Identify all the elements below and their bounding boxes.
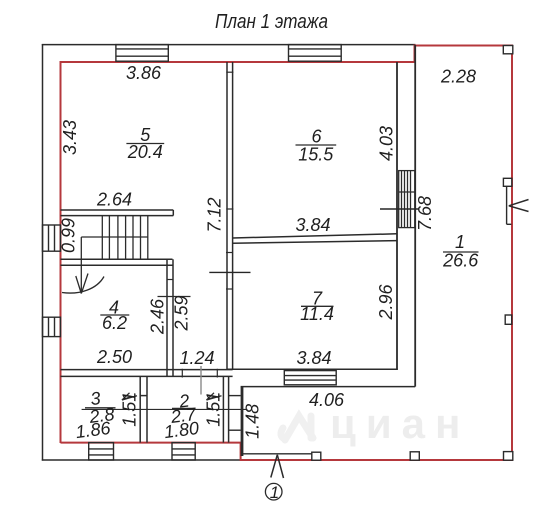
stairs direction line (76, 237, 88, 294)
svg-text:11.4: 11.4 (300, 304, 334, 324)
column square top right (503, 46, 513, 54)
door opening central wall ticks (226, 253, 233, 290)
window bottom room 3 (89, 443, 114, 460)
svg-text:2.28: 2.28 (440, 67, 476, 87)
outer frame left (42, 44, 44, 461)
outer frame top (42, 44, 416, 46)
stairs landing line (81, 236, 148, 238)
svg-text:1.51: 1.51 (204, 392, 224, 427)
svg-text:1.24: 1.24 (179, 348, 214, 368)
svg-text:2.64: 2.64 (96, 190, 132, 210)
chimney shaft right wall (399, 171, 415, 228)
stairs treads (102, 216, 148, 260)
room 7 label (300, 289, 334, 325)
svg-text:7.12: 7.12 (205, 197, 225, 232)
door opening corridor ticks (182, 369, 217, 378)
svg-text:15.5: 15.5 (298, 145, 334, 165)
column square bottom right (504, 452, 513, 461)
svg-text:4.06: 4.06 (309, 390, 345, 410)
svg-text:1.48: 1.48 (242, 404, 262, 439)
wall right thick (397, 45, 415, 387)
outer frame bottom (42, 459, 242, 461)
wall porch left (241, 387, 244, 456)
svg-text:2.8: 2.8 (87, 404, 115, 427)
svg-text:2.50: 2.50 (96, 347, 132, 367)
wall bottom thin rooms 3-2 (61, 370, 233, 377)
entrance arrow bottom (271, 455, 284, 478)
svg-text:2.7: 2.7 (169, 404, 198, 427)
shaft room2-porch (229, 396, 241, 431)
leader line corridor door (200, 366, 202, 395)
entrance arrow right (509, 200, 529, 212)
svg-text:7.68: 7.68 (415, 196, 435, 231)
svg-text:3.84: 3.84 (296, 348, 331, 368)
svg-text:4.03: 4.03 (377, 126, 397, 161)
column square right wall mid (505, 315, 512, 324)
room 1 label (442, 232, 479, 271)
room 3 label (85, 388, 116, 427)
svg-text:1.51: 1.51 (119, 392, 139, 427)
window top B (289, 45, 342, 62)
entrance mark circle 1 (265, 483, 282, 502)
svg-text:3.43: 3.43 (60, 120, 80, 155)
svg-text:2.96: 2.96 (376, 284, 396, 321)
door opening room 4 ticks (158, 280, 191, 297)
window left upper (43, 225, 61, 251)
room 6 label (296, 127, 337, 165)
svg-text:План 1 этажа: План 1 этажа (215, 11, 328, 33)
window left lower (43, 317, 61, 336)
door tick central wall mid (226, 208, 233, 210)
wall bottom thick (227, 369, 415, 386)
column square bottom 1 (312, 452, 321, 460)
svg-text:6.2: 6.2 (102, 313, 127, 333)
watermark logo (281, 416, 313, 440)
door leaf right wall (507, 186, 512, 224)
window bottom thick wall (284, 371, 336, 385)
window top A (116, 45, 168, 62)
wall rooms 6-7 divider (233, 234, 397, 243)
room 2 label (169, 390, 198, 427)
svg-text:циан: циан (330, 400, 470, 447)
dimension line rooms 3-2 (82, 408, 248, 410)
svg-text:2.46: 2.46 (147, 298, 167, 335)
svg-text:1: 1 (455, 232, 465, 252)
door tick central wall top (226, 71, 233, 73)
wall central vertical (227, 62, 233, 370)
room 5 label (126, 125, 164, 162)
svg-text:2.59: 2.59 (171, 295, 191, 331)
svg-text:3.84: 3.84 (295, 215, 330, 235)
room 4 label (100, 297, 129, 333)
door opening right wall cross line (380, 208, 420, 210)
door arrow room 2 (207, 393, 222, 400)
svg-text:1: 1 (270, 483, 279, 502)
wall room 2 right (223, 377, 228, 443)
svg-text:20.4: 20.4 (127, 142, 163, 162)
door arrow room 3 (122, 393, 137, 400)
wall rooms 3-2 divider (140, 376, 147, 442)
svg-text:6: 6 (311, 127, 322, 147)
porch step line (243, 453, 312, 455)
svg-text:3.86: 3.86 (126, 63, 162, 83)
stairs cut arc (62, 277, 104, 294)
red contour (61, 46, 513, 461)
column square bottom 2 (410, 452, 419, 460)
door opening central wall cross line (209, 271, 250, 273)
wall stair top (61, 210, 174, 216)
column square right wall (503, 178, 511, 186)
window bottom room 2 (172, 443, 195, 460)
wall stair bottom room 4 top (61, 259, 173, 265)
wall room 4 right (167, 259, 173, 376)
svg-text:0.99: 0.99 (59, 218, 79, 253)
svg-text:26.6: 26.6 (442, 251, 479, 271)
